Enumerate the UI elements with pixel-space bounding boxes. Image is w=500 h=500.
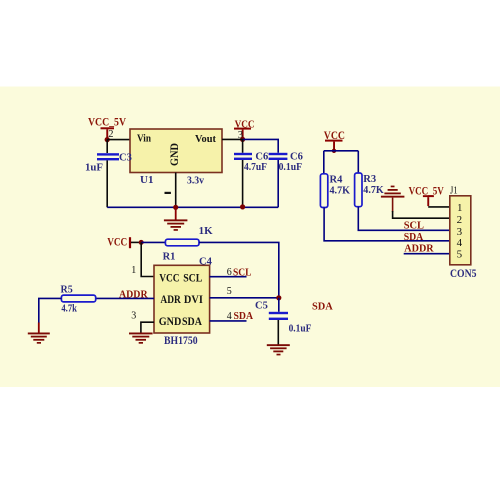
resistor R5 body [61,295,95,302]
wire R1 right to DVI node [199,242,279,297]
svg-text:1K: 1K [199,226,214,237]
svg-text:4.7K: 4.7K [330,186,351,197]
wire DVI pin 5 [210,297,279,299]
svg-text:R4: R4 [330,175,344,186]
C6b bottom plate [269,158,288,160]
wire VCC tee [324,150,359,152]
wire C6a bottom to bus [242,160,244,207]
wire Vin pin [107,139,130,141]
svg-text:SDA: SDA [404,232,424,243]
ground symbol (regulator) [164,219,188,230]
svg-text:ADDR: ADDR [404,243,434,254]
C6a bottom plate [234,158,252,160]
wire R3 bottom to SCL pin3 [358,207,450,231]
wire ADDR to pin5 [404,253,450,255]
VCC_5V J1 stem [427,197,429,206]
svg-text:R5: R5 [61,285,73,296]
svg-text:Vin: Vin [137,133,151,144]
svg-text:C3: C3 [119,153,132,164]
svg-text:ADR: ADR [160,294,181,306]
ground symbol (C5) [267,344,290,355]
ground bus wire [107,206,278,208]
wire VCC_5V to pin1 [428,206,450,208]
svg-text:CON5: CON5 [450,268,477,280]
wire VCC node down to pin1 [141,242,154,276]
power port VCC_5V bar [101,127,115,129]
wire C3 bottom to bus [106,160,108,207]
junction VCC/R1 node [139,240,144,245]
svg-text:4.7k: 4.7k [61,304,77,315]
resistor R1 body [165,239,199,246]
wire VCC to junction [131,241,141,243]
ground stem (R5) [38,323,40,334]
C6a top plate [234,153,252,155]
junction bus/C6a [240,204,245,209]
svg-text:C6: C6 [255,152,268,163]
wire tee to R4 [323,151,325,174]
C6b top plate [269,153,288,155]
svg-text:5: 5 [227,286,232,297]
BH1750 body U2 [154,265,210,333]
wire Vout pin [222,138,243,140]
wire C5 top [278,298,280,312]
wire Vout node to C6b [243,139,279,152]
svg-text:0.1uF: 0.1uF [289,324,312,335]
junction at Vout node [240,137,245,142]
ground stem below bus [175,207,177,219]
svg-text:VCC: VCC [159,273,179,285]
junction VCC tee [332,149,336,153]
ground symbol (J1, inverted) [381,186,405,198]
svg-text:3.3v: 3.3v [187,175,205,186]
power port VCC_5V stem [106,129,108,137]
wire Vout node down to C6a [242,139,244,152]
VCC middle bar [234,128,251,130]
VCC right bar [325,140,343,142]
junction DVI/C5 [276,295,281,300]
resistor R3 body [355,173,362,207]
svg-text:GND: GND [159,316,182,328]
wire GND pin 3 to ground [141,322,154,332]
svg-text:SCL: SCL [183,273,202,285]
svg-text:BH1750: BH1750 [164,335,198,347]
svg-text:J1: J1 [450,185,458,196]
svg-text:U1: U1 [140,174,153,186]
svg-text:3: 3 [131,311,136,322]
svg-text:4.7K: 4.7K [363,185,384,196]
svg-text:GND: GND [169,143,181,166]
op-amp U1 regulator body [130,129,222,173]
svg-text:R3: R3 [363,174,376,185]
svg-text:VCC_5V: VCC_5V [88,115,126,129]
junction at Vin node [105,137,110,142]
wire GND pin down [175,173,177,208]
svg-text:DVI: DVI [184,294,203,306]
svg-text:3: 3 [457,226,463,238]
ground symbol (BH1750 pin3) [129,333,153,344]
svg-text:SDA: SDA [312,302,333,313]
svg-text:4: 4 [457,237,463,249]
svg-text:2: 2 [457,214,463,226]
wire R4 bottom to SDA pin4 [324,208,450,241]
wire C5 bottom to ground [277,320,279,345]
wire R5 left to ground [39,298,62,323]
ground symbol (R5) [28,333,50,344]
svg-text:C5: C5 [255,301,268,312]
svg-text:1: 1 [131,265,136,276]
svg-text:C4: C4 [199,256,213,267]
C5 bottom plate [269,318,288,320]
svg-text:VCC: VCC [107,236,127,248]
wire SDA pin 4 [210,320,247,322]
wire C6b bottom to bus [277,160,279,207]
VCC R1 bar (vertical) [129,237,131,248]
minus mark near GND pin [165,192,171,194]
junction bus/GND pin [173,205,178,210]
connector CON5 body [450,196,471,265]
svg-text:4.7uF: 4.7uF [244,162,267,173]
C5 top plate [269,312,288,314]
svg-text:2: 2 [108,129,113,140]
C3 top plate [97,153,119,155]
svg-text:R1: R1 [163,251,176,262]
wire junction to R1 [141,241,165,243]
VCC right stem [333,142,335,150]
C3 bottom plate [97,158,119,160]
wire VCC_5V node down to C3 [106,140,108,153]
svg-text:SDA: SDA [182,316,202,328]
svg-text:SCL: SCL [404,221,424,232]
svg-text:5: 5 [457,249,463,261]
resistor R4 body [320,174,327,208]
svg-text:0.1uF: 0.1uF [279,162,302,173]
wire tee to R3 [357,151,359,173]
wire ADR pin from R5 [96,297,154,299]
wire SCL pin 6 [210,276,247,278]
wire J1 ground to pin2 [392,198,394,212]
svg-text:1: 1 [457,202,463,214]
svg-text:Vout: Vout [195,134,216,145]
svg-text:1uF: 1uF [85,162,103,173]
VCC_5V J1 bar [423,195,434,197]
VCC middle stem [242,130,244,138]
